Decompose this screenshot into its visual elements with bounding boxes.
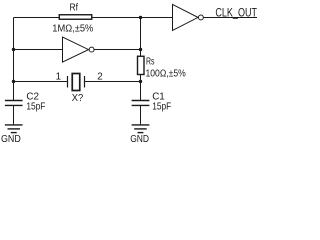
svg-text:15pF: 15pF <box>152 101 171 112</box>
svg-text:100Ω,±5%: 100Ω,±5% <box>146 69 186 80</box>
svg-text:2: 2 <box>97 72 102 83</box>
node D (junction at 140.5,81.5) <box>139 80 142 83</box>
svg-text:GND: GND <box>1 134 21 145</box>
wire: node C down to Rs <box>140 50 142 57</box>
svg-text:X?: X? <box>72 93 84 104</box>
svg-text:GND: GND <box>130 134 149 145</box>
wire: left vertical rail <box>13 18 15 101</box>
svg-text:1: 1 <box>56 72 61 83</box>
wire: Rf to node A <box>92 17 141 19</box>
node C (junction at 140.5,49.5) <box>139 48 142 51</box>
svg-text:Rs: Rs <box>146 57 155 68</box>
svg-text:15pF: 15pF <box>26 101 45 112</box>
wire: U2 output to CLK_OUT <box>203 17 257 19</box>
svg-text:Rf: Rf <box>70 3 79 14</box>
crystal X? <box>68 74 85 91</box>
ground (left GND symbol) <box>5 125 23 133</box>
node A (junction dot at 140.5,17) <box>139 16 142 19</box>
wire: node A down to node C <box>140 18 142 50</box>
wire: inverter U1 input from rail <box>14 49 63 51</box>
capacitor C2 <box>5 101 23 106</box>
wire: C1 to ground <box>140 105 142 124</box>
resistor Rf <box>59 15 92 20</box>
svg-text:CLK_OUT: CLK_OUT <box>215 8 257 20</box>
node E (junction on left rail at 13.5,81.5) <box>12 80 15 83</box>
wire: crystal pin 2 to node D <box>85 81 141 83</box>
wire: C2 to ground <box>13 105 15 124</box>
svg-text:1MΩ,±5%: 1MΩ,±5% <box>52 24 93 35</box>
wire: Rs to node D <box>140 75 142 101</box>
node B (junction on left rail, 13.5,49.5) <box>12 48 15 51</box>
inverter U1 <box>63 37 95 62</box>
ground (right GND symbol) <box>132 125 150 133</box>
capacitor C1 <box>132 101 150 106</box>
wire: top horizontal from rail to Rf <box>14 17 60 19</box>
wire: U1 output to node C <box>94 49 140 51</box>
inverter U2 (output buffer) <box>173 4 204 30</box>
wire: node A to inverter U2 input <box>141 17 173 19</box>
resistor Rs <box>138 56 145 74</box>
wire: rail to crystal pin 1 <box>14 81 68 83</box>
